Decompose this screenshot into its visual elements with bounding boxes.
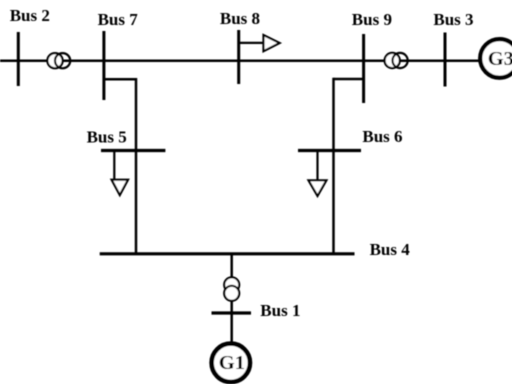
svg-text:Bus 6: Bus 6 — [362, 127, 402, 146]
load arrow at Bus 6 — [309, 151, 327, 196]
transformer T3 between Bus 4 and Bus 1 — [224, 277, 239, 301]
generator G1 circle — [212, 344, 250, 382]
bus bar Bus 7 — [102, 31, 105, 100]
svg-text:G3: G3 — [488, 48, 512, 70]
transformer T2 between Bus 9 and Bus 3 — [385, 53, 408, 68]
generator G3 circle — [480, 39, 512, 78]
bus bar Bus 9 — [362, 34, 365, 103]
svg-text:Bus 5: Bus 5 — [87, 128, 127, 147]
svg-text:G1: G1 — [219, 352, 245, 374]
svg-text:Bus 4: Bus 4 — [370, 240, 411, 259]
wire branch Bus7 to node — [104, 78, 136, 81]
bus bar Bus 1 — [212, 311, 252, 314]
bus bar Bus 3 — [444, 33, 447, 87]
bus bar Bus 5 — [101, 149, 165, 152]
svg-text:Bus 7: Bus 7 — [98, 10, 139, 29]
wire vertical Bus4 down to transformer and G1 — [230, 254, 233, 342]
bus bar Bus 2 — [17, 32, 20, 86]
svg-text:Bus 2: Bus 2 — [10, 6, 50, 25]
wire vertical Bus9 branch down through Bus6 to Bus4 — [332, 78, 335, 254]
wire main transmission line Bus2-Bus7-Bus8-Bus9-Bus3-G3 — [0, 59, 479, 62]
transformer T1 between Bus 2 and Bus 7 — [47, 53, 70, 68]
svg-text:Bus 1: Bus 1 — [260, 301, 300, 320]
bus bar Bus 8 — [237, 30, 240, 84]
svg-text:Bus 9: Bus 9 — [352, 10, 392, 29]
bus bar Bus 6 — [298, 149, 361, 152]
wire vertical Bus7 branch down through Bus5 to Bus4 — [135, 78, 138, 254]
load arrow at Bus 8 — [239, 35, 280, 51]
bus bar Bus 4 — [100, 252, 355, 255]
svg-text:Bus 8: Bus 8 — [220, 9, 260, 28]
load arrow at Bus 5 — [112, 151, 128, 196]
wire branch Bus9 to node — [334, 78, 364, 81]
svg-text:Bus 3: Bus 3 — [433, 10, 473, 29]
